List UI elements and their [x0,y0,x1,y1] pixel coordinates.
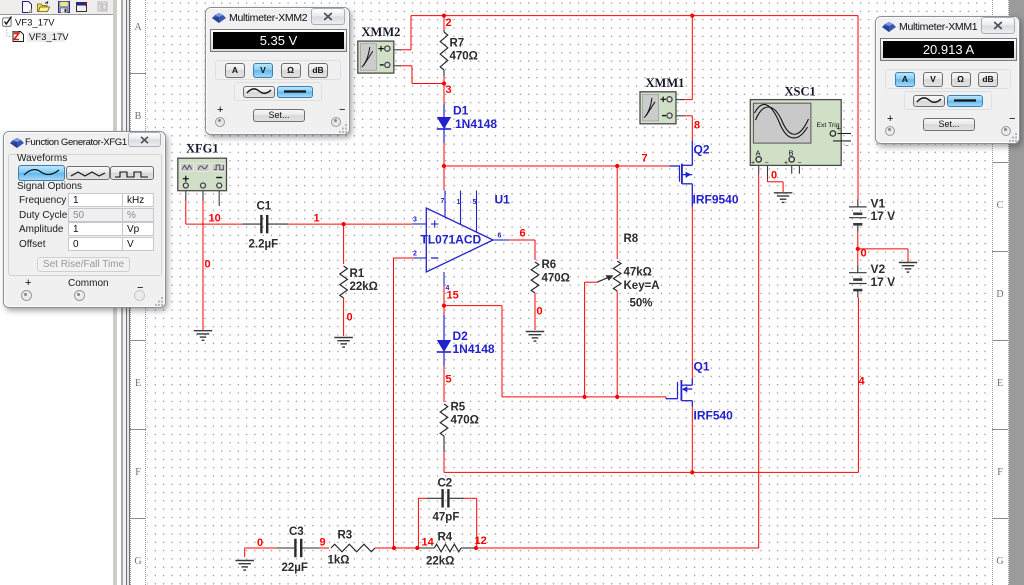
svg-text:1: 1 [314,213,320,225]
svg-text:5: 5 [446,374,452,386]
svg-text:−: − [845,143,849,150]
svg-text:2.2µF: 2.2µF [249,239,279,251]
svg-text:C2: C2 [438,478,453,490]
svg-text:50%: 50% [630,298,653,310]
svg-text:1N4148: 1N4148 [453,342,495,356]
svg-text:0: 0 [257,537,263,549]
svg-text:V2: V2 [871,262,886,276]
svg-text:17 V: 17 V [871,275,896,289]
svg-text:Q1: Q1 [694,360,710,374]
svg-text:R5: R5 [451,402,466,414]
svg-text:XMM2: XMM2 [362,25,401,39]
svg-text:5: 5 [473,199,477,206]
svg-text:7: 7 [441,198,445,205]
svg-text:R6: R6 [542,259,557,271]
svg-text:D2: D2 [453,329,469,343]
svg-text:470Ω: 470Ω [451,415,479,427]
svg-text:47pF: 47pF [433,512,460,524]
svg-text:R8: R8 [624,233,639,245]
svg-text:C3: C3 [289,526,304,538]
svg-text:15: 15 [447,290,459,302]
svg-text:14: 14 [422,537,435,549]
svg-text:6: 6 [520,228,526,240]
svg-text:47kΩ: 47kΩ [624,267,652,279]
svg-text:22kΩ: 22kΩ [426,556,454,568]
svg-text:D1: D1 [453,104,469,118]
svg-text:0: 0 [771,170,777,182]
svg-text:0: 0 [861,248,867,260]
svg-text:U1: U1 [495,193,511,207]
svg-text:22µF: 22µF [282,562,308,574]
svg-text:R7: R7 [450,38,465,50]
svg-text:Q2: Q2 [694,143,710,157]
svg-text:12: 12 [475,535,487,547]
svg-text:4: 4 [859,376,866,388]
svg-text:22kΩ: 22kΩ [350,281,378,293]
svg-text:R3: R3 [338,530,353,542]
svg-text:0: 0 [347,312,353,324]
svg-text:1kΩ: 1kΩ [328,555,350,567]
svg-text:470Ω: 470Ω [542,273,570,285]
svg-text:−: − [765,160,769,167]
svg-text:R1: R1 [350,268,365,280]
svg-text:3: 3 [413,217,417,224]
svg-text:C1: C1 [257,201,272,213]
svg-text:XMM1: XMM1 [646,76,685,90]
svg-text:XFG1: XFG1 [186,142,219,156]
svg-text:−: − [798,160,802,167]
svg-text:TL071ACD: TL071ACD [421,233,482,247]
svg-text:+: + [784,160,788,167]
svg-text:9: 9 [320,537,326,549]
svg-text:2: 2 [446,17,452,29]
svg-text:1N4148: 1N4148 [455,117,497,131]
svg-text:7: 7 [642,153,648,165]
svg-text:8: 8 [694,120,700,132]
svg-text:IRF9540: IRF9540 [693,193,739,207]
svg-text:0: 0 [205,259,211,271]
svg-text:3: 3 [446,84,452,96]
svg-text:+: + [751,160,755,167]
svg-text:XSC1: XSC1 [785,85,816,99]
svg-text:470Ω: 470Ω [450,51,478,63]
svg-text:10: 10 [209,213,221,225]
svg-text:Key=A: Key=A [624,280,660,292]
svg-text:2: 2 [413,251,417,258]
svg-text:R4: R4 [438,532,453,544]
svg-text:6: 6 [498,233,502,240]
svg-text:1: 1 [457,199,461,206]
svg-text:+: + [837,126,841,133]
svg-text:0: 0 [537,306,543,318]
svg-text:17 V: 17 V [871,209,896,223]
svg-text:IRF540: IRF540 [694,409,734,423]
